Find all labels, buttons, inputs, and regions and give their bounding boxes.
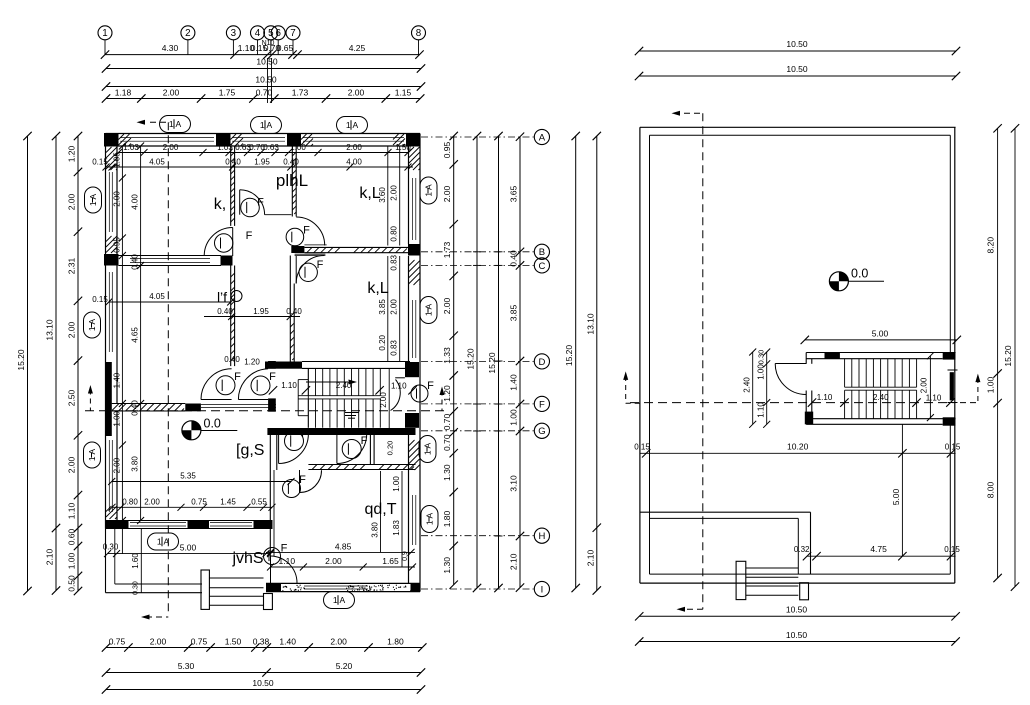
svg-text:2.10: 2.10 [509, 553, 519, 570]
section line vertical (axis 2-2) [137, 120, 169, 620]
svg-text:0.30: 0.30 [133, 581, 140, 595]
door tag F1 [241, 198, 260, 217]
dim row 1.03/2.00/1.03/0.63/0.70/0.63/1.00/2.00/1.50 [115, 143, 412, 156]
dimension column 15.20 (far left) [16, 132, 32, 595]
dimension column 3.65/0.40/3.85/1.40/1.00/3.10/2.10 [509, 133, 525, 592]
svg-text:0.40: 0.40 [131, 254, 140, 270]
svg-text:3.85: 3.85 [509, 304, 519, 321]
svg-text:15.20: 15.20 [564, 345, 574, 367]
svg-text:10.20: 10.20 [787, 442, 809, 452]
speckle band bottom wall a [282, 585, 305, 592]
svg-text:1.20: 1.20 [244, 358, 260, 367]
interior wall axis3 vertical [231, 146, 235, 226]
svg-text:F: F [303, 225, 310, 237]
svg-text:4.65: 4.65 [131, 327, 140, 343]
right plan dim row 10.50 (top outer) [635, 39, 960, 55]
svg-text:0.20: 0.20 [386, 441, 395, 456]
svg-text:4: 4 [255, 28, 261, 39]
exterior wall bottom-right [266, 583, 420, 591]
svg-text:0.80: 0.80 [122, 498, 138, 507]
svg-text:4.00: 4.00 [346, 157, 362, 166]
wall row G thick (stair bottom) [267, 428, 415, 435]
column stair top-right [943, 352, 956, 360]
section tag oval 1A left middle [84, 312, 101, 338]
svg-text:1.00: 1.00 [392, 476, 401, 492]
svg-text:0.15: 0.15 [92, 157, 108, 166]
svg-text:1.30: 1.30 [442, 557, 452, 574]
svg-text:7: 7 [290, 28, 295, 39]
svg-text:1.10: 1.10 [926, 394, 942, 403]
svg-text:0.70: 0.70 [442, 413, 452, 430]
svg-text:5.00: 5.00 [891, 488, 901, 505]
section tag oval 1A porch [148, 533, 179, 550]
door tag F7 [342, 440, 361, 459]
svg-text:6: 6 [275, 28, 281, 39]
svg-text:1.75: 1.75 [219, 88, 236, 98]
svg-text:[g,S: [g,S [236, 442, 264, 459]
svg-text:1 A: 1 A [169, 119, 182, 129]
svg-text:2.00: 2.00 [113, 457, 122, 473]
dimension row 0.75/2.00/0.75/1.50/0.38/1.40/2.00/1.80 [102, 637, 427, 652]
door tag F3 [286, 228, 304, 246]
stair section break marks [345, 413, 359, 419]
right plan section axis horizontal (dashed) [623, 371, 980, 403]
svg-text:3.85: 3.85 [378, 299, 387, 315]
svg-text:5.00: 5.00 [180, 543, 197, 553]
svg-text:0.15: 0.15 [944, 545, 960, 554]
door tag F4 [299, 263, 317, 281]
svg-text:2.00: 2.00 [379, 392, 388, 408]
svg-text:2.00: 2.00 [150, 637, 167, 647]
dimension row 1.18/2.00/1.75/0.70/1.73/2.00/1.15 [102, 88, 425, 103]
svg-text:0.80: 0.80 [390, 225, 399, 241]
right stair treads lower [845, 390, 917, 419]
svg-text:0.60: 0.60 [67, 528, 77, 545]
dimension column 15.20 (b) [487, 132, 503, 592]
svg-text:2.10: 2.10 [45, 548, 55, 565]
svg-text:1.15: 1.15 [395, 88, 412, 98]
right plan dim row 10.50 (bottom b) [635, 630, 960, 646]
right plan section line vertical (dashed) [672, 111, 703, 612]
svg-text:N10: N10 [262, 40, 275, 47]
svg-text:0.50: 0.50 [67, 575, 77, 592]
grid bubble 8 [412, 26, 426, 55]
svg-text:3.80: 3.80 [371, 522, 380, 538]
svg-text:10.50: 10.50 [786, 64, 808, 74]
svg-text:15.20: 15.20 [466, 348, 476, 370]
dim row 4.85 [266, 542, 415, 556]
svg-text:15.20: 15.20 [487, 352, 497, 374]
svg-text:5.20: 5.20 [336, 661, 353, 671]
svg-text:1.03: 1.03 [123, 143, 139, 152]
hatch right wall [409, 147, 421, 170]
porch outline [106, 529, 203, 595]
svg-text:15.20: 15.20 [16, 349, 26, 371]
svg-text:2.10: 2.10 [585, 549, 595, 566]
svg-text:1 A: 1 A [157, 537, 170, 547]
speckle band bottom wall b [346, 585, 412, 592]
right stair door (arc+leaf) [775, 364, 806, 395]
svg-text:1.05: 1.05 [113, 152, 122, 168]
grid bubble D [421, 354, 550, 369]
hatch left wall mid [106, 236, 117, 253]
interior dim chain x=400 (2.00/0.80/0.83/2.00/0.83) [390, 146, 400, 362]
grid bubble A [421, 129, 550, 144]
right plan porch steps [736, 561, 808, 600]
grid bubble F [421, 396, 550, 411]
right stair window bar in right wall [950, 372, 954, 400]
svg-text:0.9: 0.9 [402, 551, 409, 561]
svg-text:2.00: 2.00 [348, 88, 365, 98]
column top-3 [287, 134, 301, 147]
svg-text:1.03: 1.03 [217, 143, 233, 152]
dimension column 13.10/2.10 [45, 132, 61, 595]
dimension column 15.20 (c) [564, 132, 580, 592]
grid bubble 7 [286, 26, 300, 55]
svg-text:1.80: 1.80 [442, 510, 452, 527]
section tag oval 1A top row b [251, 117, 282, 134]
svg-text:k,L: k,L [367, 280, 388, 297]
svg-text:1.65: 1.65 [382, 556, 399, 566]
column stair bottom-right [943, 417, 956, 425]
svg-text:A: A [539, 132, 546, 143]
svg-text:2.00: 2.00 [144, 498, 160, 507]
column bottom-left of qd,T [266, 583, 281, 591]
section tag oval 1A left top [85, 187, 102, 213]
door tag F5 (right wall) [411, 385, 428, 402]
dim row 0.40/1.95/0.40 (hall bottom) [204, 307, 302, 320]
dim row 0.15/4.05/0.40/1.95/0.40/4.00 [92, 157, 413, 170]
door D5 stair right wall (arc+leaf) [391, 378, 405, 411]
right stairwell walls [806, 353, 955, 425]
svg-text:10.50: 10.50 [786, 605, 808, 615]
door tag F8 [283, 480, 301, 498]
axis 5-6 vertical stubs [268, 58, 272, 103]
dimension row 10.50 (bottom) [102, 678, 425, 694]
grid bubble I [421, 581, 550, 596]
door tag F11 [251, 376, 270, 395]
svg-text:0.0: 0.0 [204, 417, 221, 431]
svg-text:4.00: 4.00 [131, 194, 140, 210]
stair upper flight treads [308, 368, 380, 395]
column porch-1 [106, 521, 129, 529]
section tag oval 1A bottom qd,T [324, 592, 355, 609]
svg-text:0.70: 0.70 [256, 88, 273, 98]
right stair treads upper [845, 359, 917, 391]
column top-4 [406, 133, 420, 147]
svg-text:0.15: 0.15 [634, 443, 650, 452]
dim row 2.00/0.75/1.45/0.55 [109, 498, 276, 511]
svg-text:1.40: 1.40 [113, 372, 122, 388]
grid bubble G [421, 423, 550, 438]
grid bubble C [421, 258, 550, 273]
column stair bottom-left [805, 412, 813, 425]
interior dim chain x=122 (2.00/0.95/1.40/1.00/2.00) [113, 143, 126, 525]
svg-text:k,L: k,L [359, 185, 380, 202]
svg-text:1: 1 [102, 28, 107, 39]
dimension column 13.10/2.10 (right) [585, 132, 601, 595]
right plan dim row 10.50 (bottom a) [635, 605, 960, 621]
wall stub black x268 upper [268, 361, 276, 369]
column B-left (hall) [291, 246, 304, 253]
svg-text:2.00: 2.00 [163, 143, 179, 152]
svg-text:G: G [538, 426, 545, 437]
porch steps [201, 570, 272, 610]
parapet thin lines row F [201, 405, 276, 408]
right plan dim vertical 5.00 [891, 424, 907, 560]
svg-text:2.40: 2.40 [873, 393, 889, 402]
svg-text:0.15: 0.15 [92, 295, 108, 304]
interior wall row B (right part) [295, 245, 408, 256]
stair lower flight treads [308, 368, 380, 427]
column F-mid [185, 404, 201, 412]
svg-text:2.00: 2.00 [346, 143, 362, 152]
column C-mid [221, 256, 233, 266]
svg-text:4.85: 4.85 [335, 542, 352, 552]
dimension row 10.50 (first) [102, 57, 425, 73]
svg-text:0.30: 0.30 [757, 350, 766, 365]
svg-text:1.50: 1.50 [225, 637, 242, 647]
svg-text:5.35: 5.35 [180, 472, 196, 481]
svg-text:k,: k, [214, 196, 226, 213]
svg-text:1.10: 1.10 [279, 556, 296, 566]
svg-text:0.40: 0.40 [286, 307, 302, 316]
svg-text:0.65: 0.65 [277, 43, 294, 53]
svg-text:0.38: 0.38 [253, 637, 270, 647]
wall row F (left part) [112, 404, 186, 412]
stairwell top wall (row D) [265, 362, 410, 369]
svg-text:0.63: 0.63 [263, 143, 279, 152]
right plan dim row 0.32/4.75/0.15 [794, 544, 960, 560]
svg-text:F: F [361, 435, 368, 447]
svg-text:3.10: 3.10 [509, 475, 519, 492]
svg-text:1.45: 1.45 [220, 498, 236, 507]
svg-text:2.31: 2.31 [67, 257, 77, 274]
svg-text:2.00: 2.00 [390, 299, 399, 315]
svg-text:5.00: 5.00 [872, 329, 889, 339]
dimension column 0.95/2.00/1.73/2.00/1.33/1.20/0.70/0.70/1.30/1.80/1.30 [442, 132, 458, 589]
svg-text:1.10: 1.10 [281, 381, 297, 390]
svg-text:0.20: 0.20 [378, 334, 387, 350]
svg-text:13.10: 13.10 [45, 319, 55, 341]
section tag oval 1A right wall qd,T [421, 506, 438, 533]
grid bubble 1 [98, 26, 112, 55]
svg-text:1.30: 1.30 [442, 464, 452, 481]
svg-text:2.40: 2.40 [336, 381, 352, 390]
svg-text:plhL: plhL [276, 171, 308, 190]
hall wall vertical (x293) upper [292, 146, 296, 217]
svg-text:F: F [299, 474, 306, 486]
svg-text:C: C [538, 261, 545, 272]
svg-text:4.25: 4.25 [349, 43, 366, 53]
door D11 qd,T left (arc+leaf) [300, 470, 322, 493]
svg-text:1.50: 1.50 [395, 143, 411, 152]
right plan dim column 15.20 [1003, 124, 1019, 591]
svg-text:0.40: 0.40 [283, 157, 299, 166]
svg-text:2: 2 [185, 28, 190, 39]
door D6 below G wall left (arc+leaf) [279, 434, 309, 464]
svg-text:0.15: 0.15 [945, 443, 961, 452]
svg-text:3.80: 3.80 [131, 456, 140, 472]
hall wall vertical (x293) lower [290, 256, 294, 363]
svg-text:1 A: 1 A [346, 120, 359, 130]
exterior wall right [409, 134, 421, 592]
svg-text:l’f: l’f [217, 289, 227, 305]
svg-text:8.00: 8.00 [986, 481, 996, 498]
svg-text:D: D [538, 357, 545, 368]
grid bubble 4 [251, 26, 265, 55]
svg-text:1.73: 1.73 [292, 88, 309, 98]
right plan outer walls [640, 127, 956, 583]
svg-text:1.20: 1.20 [67, 145, 77, 162]
section tag oval 1A right wall lower [420, 297, 437, 324]
door D9 hall lower-left (arc+leaf) [201, 369, 232, 400]
interior dim verticals qd,T (3.80 / 1.83 / 1.00) [371, 441, 403, 567]
svg-text:1 A: 1 A [333, 595, 346, 605]
svg-text:5.30: 5.30 [178, 661, 195, 671]
door tag F2 [215, 234, 233, 252]
svg-text:0.32: 0.32 [794, 545, 810, 554]
hatch left wall low [106, 506, 117, 519]
column left-C [104, 254, 119, 266]
stair direction arrow [306, 381, 348, 383]
svg-text:0.70: 0.70 [442, 434, 452, 451]
svg-text:1.83: 1.83 [392, 520, 401, 536]
svg-text:F: F [427, 380, 434, 392]
svg-text:1.00: 1.00 [113, 410, 122, 426]
right stair dims 1.10/2.40/1.10/2.00 [808, 377, 955, 407]
wall stub x372 vertical [370, 435, 374, 465]
hatch left wall top [106, 147, 117, 170]
svg-text:F: F [317, 259, 324, 271]
dimension column 15.20 (a) [466, 132, 482, 592]
door tag F10 [216, 376, 235, 395]
svg-text:0.75: 0.75 [191, 637, 208, 647]
section line horizontal (axis 1-1) [85, 385, 445, 411]
wall pier left solid [106, 362, 112, 436]
door D1 hall top (arc+leaf) [240, 190, 292, 215]
dim row 0.30/5.00 porch [104, 543, 274, 558]
svg-text:4.05: 4.05 [149, 157, 165, 166]
svg-text:0.55: 0.55 [251, 498, 267, 507]
svg-text:1.18: 1.18 [115, 88, 132, 98]
svg-text:2.00: 2.00 [325, 556, 342, 566]
door D8 jvhS (arc+leaf) [271, 556, 298, 583]
svg-text:4.05: 4.05 [149, 292, 165, 301]
porch wall band y521-528 [106, 521, 273, 529]
interior dim chain x=140 (4.00/4.65/3.80) [131, 143, 145, 525]
origin marker 0.0 left plan [182, 421, 201, 440]
svg-text:0.40: 0.40 [131, 400, 140, 416]
svg-text:10.50: 10.50 [256, 57, 278, 67]
right plan stair dim 5.00 [801, 329, 961, 345]
section tag oval 1A top row c [337, 117, 368, 134]
interior wall row C (left part) [119, 256, 222, 266]
column top-1 [104, 133, 119, 147]
svg-text:3.65: 3.65 [509, 185, 519, 202]
svg-text:1.10: 1.10 [817, 393, 833, 402]
svg-text:1.40: 1.40 [509, 374, 519, 391]
svg-text:2.00: 2.00 [67, 193, 77, 210]
svg-text:2.40: 2.40 [743, 377, 752, 393]
svg-text:2.50: 2.50 [67, 389, 77, 406]
column right-D [405, 362, 419, 377]
dimension row 10.50 (second) [102, 75, 425, 91]
grid bubble H [421, 528, 550, 543]
dim row 4.05 (middle) [92, 292, 234, 306]
svg-text:1.00: 1.00 [757, 364, 766, 380]
svg-text:2.00: 2.00 [113, 191, 122, 207]
svg-text:0.83: 0.83 [390, 340, 399, 356]
svg-text:0.75: 0.75 [109, 637, 126, 647]
column right-I [411, 583, 421, 591]
svg-text:13.10: 13.10 [585, 313, 595, 335]
svg-text:10.50: 10.50 [786, 39, 808, 49]
dim labels 0.40/1.20 near row D [224, 355, 260, 367]
stair dim 1.10/2.40/1.10 + ticks [269, 381, 417, 395]
grid bubble 2 [181, 26, 195, 55]
door tag F9 [264, 548, 281, 565]
hatch top wall segs [119, 134, 132, 146]
section tag oval 1A left bottom [84, 442, 101, 468]
grid bubble 6 [271, 26, 285, 55]
svg-text:0.0: 0.0 [851, 267, 868, 281]
door D10 hall lower-mid (arc+leaf) [238, 369, 268, 400]
wall vertical x270-277 (g,S right wall) [270, 435, 277, 556]
door D4 hall lower-right (arc+leaf) [296, 256, 324, 284]
wall stub black x268 lower [268, 398, 276, 411]
column stair top-left [825, 352, 840, 359]
grid bubble 3 [226, 26, 240, 55]
svg-text:1.95: 1.95 [253, 307, 269, 316]
svg-text:2.00: 2.00 [67, 456, 77, 473]
svg-text:1.40: 1.40 [279, 637, 296, 647]
exterior wall left [106, 134, 118, 529]
svg-text:2.00: 2.00 [390, 185, 399, 201]
svg-text:1.00: 1.00 [986, 376, 996, 393]
svg-text:0.40: 0.40 [509, 250, 519, 267]
svg-text:0.40: 0.40 [225, 157, 241, 166]
svg-text:4.75: 4.75 [870, 544, 887, 554]
svg-text:2.00: 2.00 [920, 377, 929, 393]
svg-text:1.00: 1.00 [290, 143, 306, 152]
svg-text:1.80: 1.80 [387, 637, 404, 647]
stair landing lines [298, 380, 380, 416]
svg-text:0.95: 0.95 [442, 141, 452, 158]
svg-text:2.00: 2.00 [163, 88, 180, 98]
right plan dim column 8.20/1.00/8.00 [986, 124, 1002, 582]
svg-text:F: F [257, 197, 264, 209]
svg-text:1.73: 1.73 [442, 241, 452, 258]
right plan porch [640, 512, 955, 583]
grid bubble B [421, 244, 550, 259]
svg-text:4.30: 4.30 [162, 43, 179, 53]
svg-text:15.20: 15.20 [1003, 345, 1013, 367]
section tag oval 1A right wall upper [420, 177, 437, 204]
dimension column 1.20/2.00/2.31/2.00/2.50/2.00/1.10/0.60/1.00/0.50 [67, 132, 83, 595]
svg-text:10.50: 10.50 [255, 75, 277, 85]
column right-B [408, 244, 420, 256]
svg-text:1 A: 1 A [260, 120, 273, 130]
svg-text:0.75: 0.75 [191, 498, 207, 507]
door D7 below G wall right (arc+leaf) [337, 434, 367, 464]
svg-text:H: H [538, 531, 545, 542]
dim row 5.35 [108, 472, 294, 486]
dimension row 5.30/5.20 [102, 661, 425, 677]
svg-text:0.83: 0.83 [390, 254, 399, 270]
svg-text:10.50: 10.50 [786, 630, 808, 640]
section tag oval 1A top row a [160, 116, 191, 133]
